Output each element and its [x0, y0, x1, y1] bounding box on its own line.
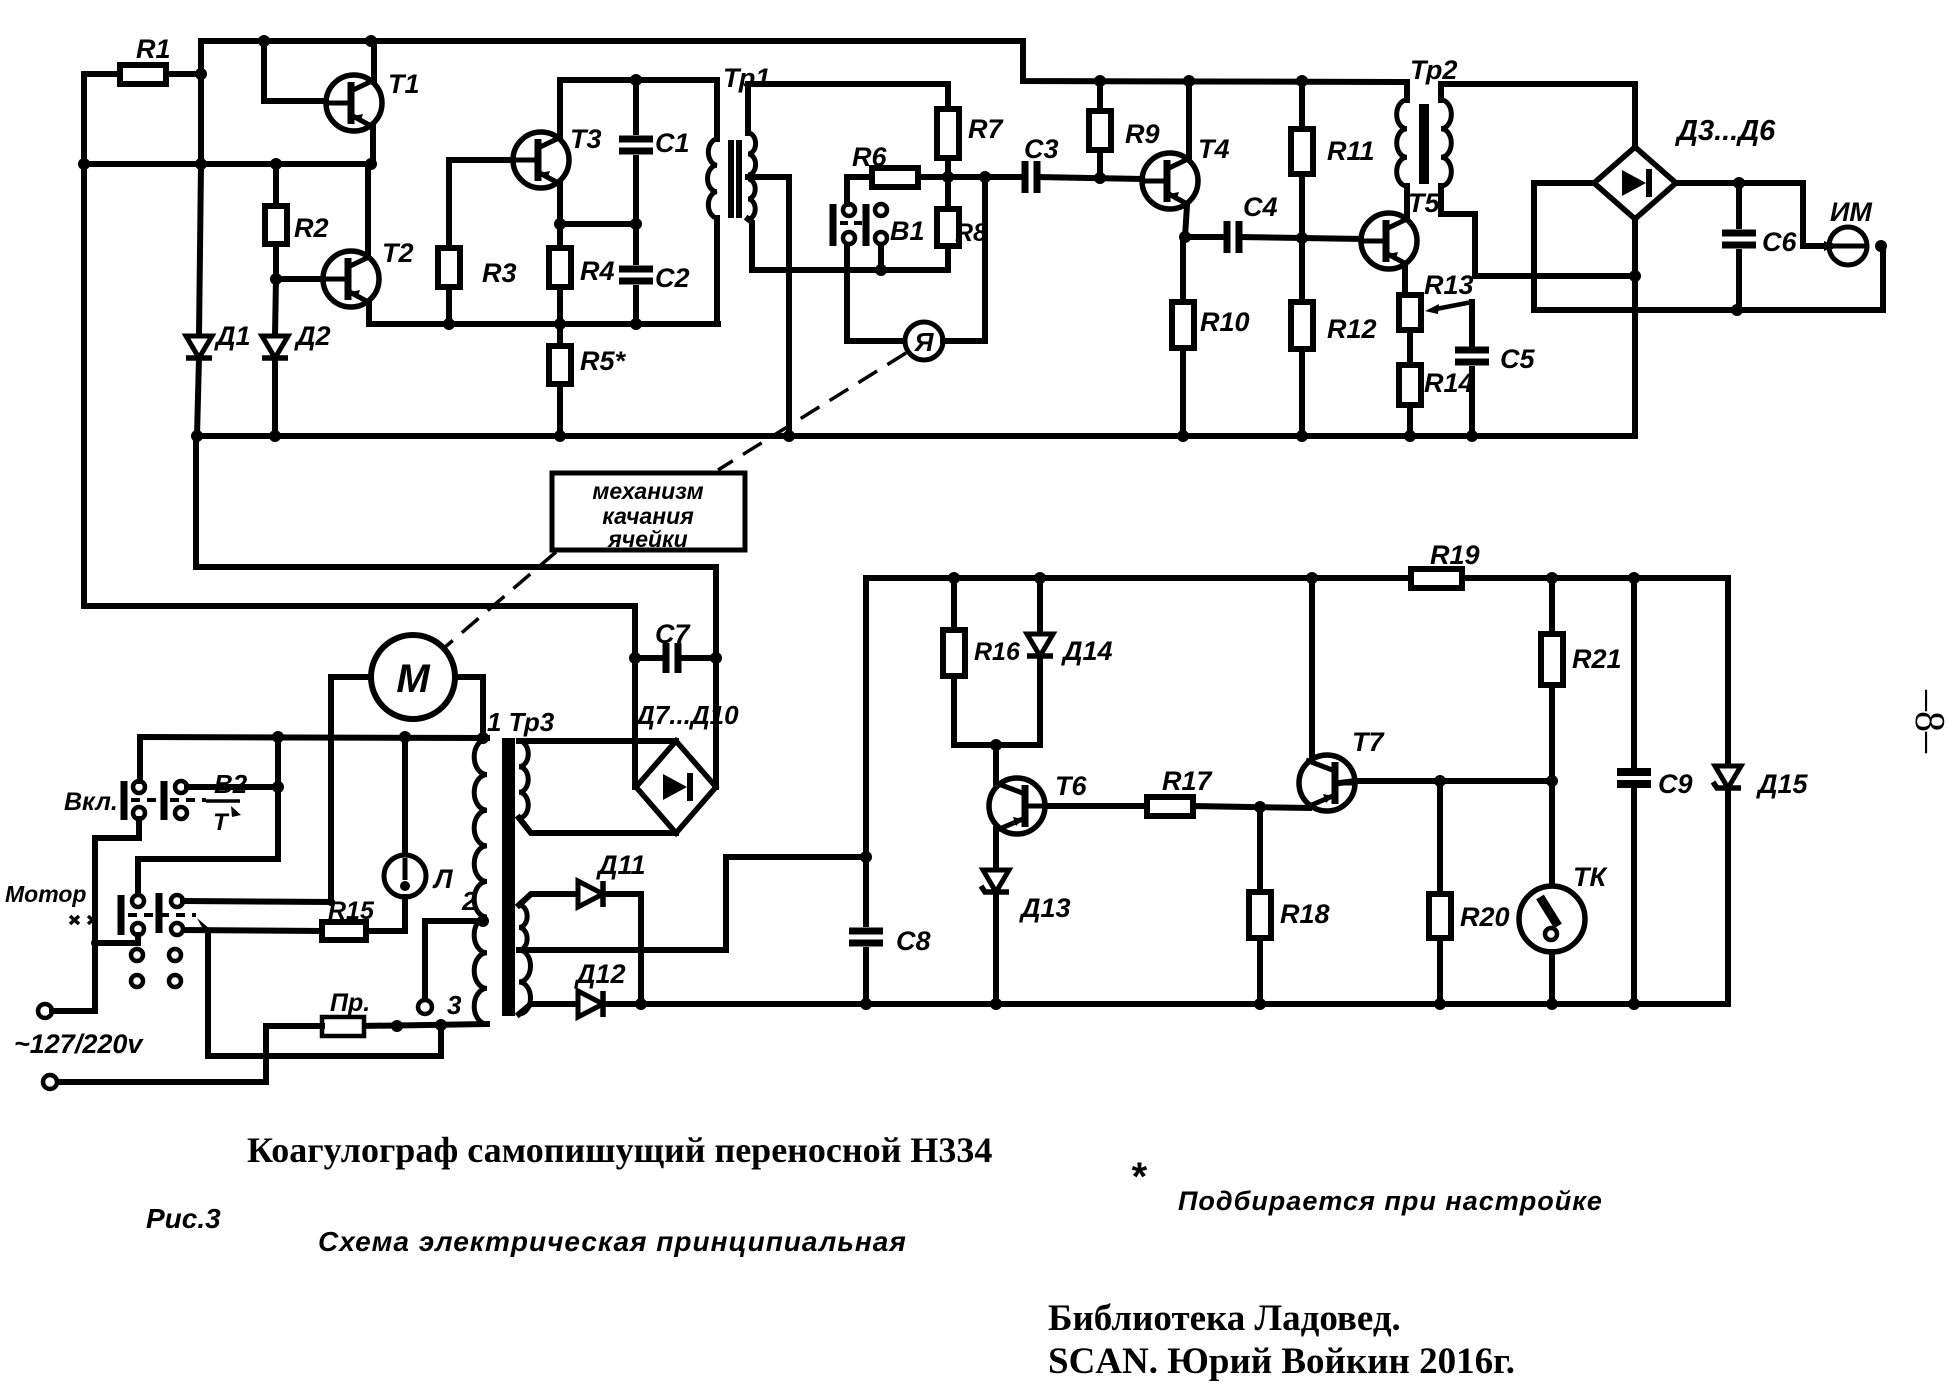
wire Tp2 right bottom lead — [1441, 186, 1635, 276]
transformer Tp2 right winding — [1441, 100, 1451, 186]
credit line 1 — [1048, 1298, 1401, 1339]
svg-text:1 Тр3: 1 Тр3 — [487, 707, 555, 737]
terminal mains input upper — [38, 1004, 52, 1018]
svg-text:Т6: Т6 — [1055, 771, 1087, 801]
wire R5 bottom — [557, 384, 563, 436]
node B2 right on vertical — [272, 781, 284, 793]
wire motor switch row1-right to motor — [183, 901, 331, 902]
svg-text:Д13: Д13 — [1019, 893, 1071, 923]
transformer Tp3 secondary winding III — [519, 950, 531, 1014]
svg-text:~127/220v: ~127/220v — [14, 1029, 144, 1059]
node R9 bottom — [1094, 172, 1106, 184]
svg-text:Т: Т — [213, 809, 230, 836]
label 2 — [461, 886, 477, 916]
svg-text:Вкл.: Вкл. — [64, 788, 118, 816]
transformer Tp1 secondary winding lower — [748, 179, 755, 219]
label ТК — [1573, 862, 1608, 892]
label Д3...Д6 — [1674, 115, 1776, 147]
resistor R8 — [937, 209, 959, 246]
diode Д14 — [1027, 634, 1053, 656]
resistor R19 — [1411, 569, 1462, 588]
wire R4 bottom to R5 — [557, 287, 563, 346]
node Д14 top rail — [1034, 572, 1046, 584]
label C1 — [655, 128, 690, 158]
wire T6 emitter lead — [993, 829, 999, 870]
svg-text:Тр2: Тр2 — [1410, 55, 1457, 85]
bridge rectifier Д7...Д10 — [636, 741, 716, 833]
svg-text:С7: С7 — [655, 619, 691, 649]
node T4 emitter / R10 / C4 — [1179, 231, 1191, 243]
label T6 — [1055, 771, 1087, 801]
node tap2 on primary — [477, 915, 489, 927]
bridge rectifier Д3...Д6 — [1594, 147, 1676, 219]
wire lower-left drop from bus — [196, 436, 716, 787]
switch Мотор — [121, 893, 196, 987]
wire R20 top — [1437, 781, 1443, 894]
label R20 — [1460, 902, 1510, 932]
wire left column x=201 — [198, 41, 204, 164]
wire T4 emitter — [1185, 205, 1187, 237]
label R11 — [1327, 136, 1375, 166]
wire Д15 bottom — [1725, 788, 1731, 1004]
resistor R17 — [1147, 797, 1193, 816]
wire meter loop right side — [943, 177, 985, 341]
node lamp column on motor bus — [399, 731, 411, 743]
label R17 — [1162, 766, 1214, 796]
wire input branch to motor switch row2 — [95, 940, 136, 946]
label 1 Тр3 — [487, 707, 555, 737]
capacitor C7 — [666, 643, 678, 673]
wire Tp3 tap3 row — [362, 1024, 487, 1026]
label ИМ — [1830, 197, 1872, 227]
wire T3 emitter — [557, 184, 563, 224]
wire Tp1 secondary mid tap — [748, 177, 789, 436]
wire Д14 bottom — [996, 656, 1040, 745]
wire Tp3 tap2 — [425, 921, 485, 1000]
wire R1 to vertical — [166, 71, 201, 77]
wire C1 top lead — [633, 80, 639, 132]
wire T6 base to R17 — [1046, 803, 1147, 809]
footnote asterisk — [1130, 1155, 1148, 1199]
wire left tall vertical — [81, 74, 87, 606]
node R16 top rail — [948, 572, 960, 584]
wire R8 bottom lead — [945, 246, 951, 270]
label C6 — [1762, 227, 1797, 257]
svg-text:2: 2 — [461, 886, 477, 916]
svg-text:Рис.3: Рис.3 — [146, 1203, 221, 1234]
resistor R14 — [1399, 365, 1421, 405]
wire R16 top — [951, 578, 957, 630]
node C7 left — [629, 652, 641, 664]
caption schema line — [318, 1226, 907, 1257]
wire lamp top lead — [402, 737, 408, 856]
title text — [247, 1130, 992, 1170]
label Д12 — [574, 959, 626, 989]
transformer Tp3 primary winding — [474, 739, 487, 1024]
wire bridge right vertex to C6/IM — [1676, 183, 1830, 246]
wire D1 column upper — [199, 164, 201, 336]
wire C6 bottom lead — [1736, 252, 1742, 310]
node R2 top on bus — [270, 158, 282, 170]
node T1 emitter / T2 collector — [365, 158, 377, 170]
node C2 bottom on osc bus — [630, 318, 642, 330]
wire top rail right part — [1443, 84, 1635, 147]
svg-text:С2: С2 — [655, 263, 690, 293]
wire B2/motor-switch vertical — [138, 737, 278, 895]
resistor R4 — [549, 248, 571, 287]
resistor R12 — [1291, 302, 1313, 349]
terminal mains input lower — [43, 1075, 57, 1089]
resistor R5* — [549, 346, 571, 384]
wire T2 emitter — [369, 303, 718, 324]
transformer Tp1 primary winding — [708, 139, 717, 218]
wire T3 base / R3 top — [449, 160, 513, 248]
svg-text:С6: С6 — [1762, 227, 1797, 257]
node motor right / Tp3 pin1 — [477, 732, 489, 744]
wire B1 lower-right to tap wire — [878, 245, 884, 270]
svg-text:Т3: Т3 — [570, 124, 602, 154]
node Ya loop top — [979, 171, 991, 183]
node T1 collector on top rail — [365, 35, 377, 47]
svg-text:R1: R1 — [136, 34, 171, 64]
label T7 — [1352, 727, 1385, 757]
resistor R11 — [1291, 129, 1313, 174]
label T4 — [1198, 134, 1230, 164]
wire bottom rail — [603, 1001, 1728, 1007]
svg-text:Д3...Д6: Д3...Д6 — [1674, 115, 1776, 147]
switch В2 — [124, 781, 206, 820]
wire motor right lead — [455, 677, 483, 738]
label 3 — [447, 990, 462, 1020]
transformer Tp3 secondary winding I — [519, 741, 528, 818]
wire R3 bottom — [446, 287, 452, 324]
wire Tp3 center tap — [519, 857, 866, 950]
wire R13 wiper to C5 — [1469, 302, 1475, 344]
node Tp1 tap vertical on lower bus — [783, 430, 795, 442]
label R1 — [136, 34, 171, 64]
wire R11 top — [1299, 81, 1305, 129]
svg-text:С4: С4 — [1243, 192, 1278, 222]
transistor T1 — [326, 75, 382, 131]
wire C8 column upper — [863, 578, 869, 924]
wire D2 to lower bus — [272, 358, 278, 436]
capacitor C2 — [619, 269, 653, 281]
label R6 — [852, 142, 887, 172]
svg-text:ТК: ТК — [1573, 862, 1608, 892]
wire R12 bottom — [1299, 349, 1305, 436]
svg-text:С3: С3 — [1024, 134, 1059, 164]
wire R7 bottom — [945, 158, 951, 177]
node T3 emitter / R4 top — [554, 218, 566, 230]
svg-text:механизм: механизм — [592, 478, 703, 504]
wire Tp2 right top lead — [1438, 84, 1444, 100]
wire R21 bottom — [1549, 685, 1555, 781]
node R9 top rail — [1094, 75, 1106, 87]
svg-text:Д1: Д1 — [214, 321, 251, 351]
wire C9 top — [1631, 578, 1637, 765]
wire R20 bottom — [1437, 938, 1443, 1004]
node T4 collector rail — [1183, 75, 1195, 87]
transformer Tp3 core — [502, 738, 515, 1016]
svg-text:R15: R15 — [328, 897, 375, 925]
label C7 — [655, 619, 691, 649]
node C1 top — [630, 74, 642, 86]
svg-text:Т4: Т4 — [1198, 134, 1230, 164]
node IM right corner — [1875, 240, 1887, 252]
transformer Tp2 core — [1419, 104, 1429, 184]
svg-text:Пр.: Пр. — [330, 989, 370, 1017]
label Д1 — [214, 321, 251, 351]
node Д13 bottom rail — [990, 998, 1002, 1010]
node R1 right — [195, 68, 207, 80]
wire upper input to B2 — [52, 838, 136, 1011]
wire T3 collector — [557, 80, 563, 137]
node selector contact a — [435, 1019, 447, 1031]
capacitor C4 — [1227, 221, 1239, 253]
wire R8 top lead — [945, 177, 951, 209]
wire R6 row — [847, 174, 872, 180]
svg-text:R16: R16 — [974, 638, 1021, 666]
label C4 — [1243, 192, 1278, 222]
wire Tp1 secondary top lead — [748, 84, 948, 133]
svg-text:Л: Л — [432, 864, 454, 894]
label T3 — [570, 124, 602, 154]
capacitor C8 — [849, 931, 883, 943]
label Д15 — [1756, 769, 1809, 799]
node D2 on lower bus — [269, 430, 281, 442]
resistor R3 — [438, 248, 460, 287]
wire T6 collector lead — [993, 745, 999, 783]
wire Д15 top — [1725, 578, 1731, 766]
svg-text:Т5: Т5 — [1408, 188, 1440, 218]
svg-text:R19: R19 — [1430, 540, 1480, 570]
wire C3 to T4 base — [1038, 177, 1142, 179]
wire motor switch row2-left to input — [135, 935, 141, 943]
label T5 — [1408, 188, 1440, 218]
svg-text:Т7: Т7 — [1352, 727, 1385, 757]
svg-text:Д11: Д11 — [596, 850, 646, 880]
wire bridge bottom vertex to lower bus — [1632, 219, 1638, 436]
wire R2 bottom / T2 base — [276, 244, 323, 279]
wire D1 to lower bus — [197, 358, 199, 436]
wire T4 collector — [1186, 81, 1192, 158]
svg-text:R6: R6 — [852, 142, 887, 172]
resistor R16 — [943, 630, 965, 676]
node R5 bottom on lower bus — [554, 430, 566, 442]
svg-text:Я: Я — [914, 327, 935, 357]
label R14 — [1424, 368, 1474, 398]
mechanism box — [552, 473, 745, 552]
transistor T6 — [989, 778, 1045, 834]
label C5 — [1500, 344, 1535, 374]
node T7 collector rail — [1306, 572, 1318, 584]
label T2 — [382, 238, 414, 268]
wire B2 top-left to motor bus — [137, 737, 143, 781]
wire D2 column upper — [275, 279, 276, 336]
wire Д13 bottom — [993, 892, 999, 1004]
wire R9 top — [1097, 81, 1103, 111]
node TK bottom rail — [1546, 998, 1558, 1010]
svg-text:ячейки: ячейки — [606, 526, 688, 552]
wire R6 right to C3 — [918, 174, 1024, 180]
wire Tp3 sec1 top to bridge top vertex — [519, 738, 676, 744]
svg-text:С5: С5 — [1500, 344, 1535, 374]
label В1 — [890, 216, 925, 246]
diode Д2 — [262, 336, 288, 358]
wire R4 top — [557, 224, 563, 248]
svg-text:R11: R11 — [1327, 136, 1375, 166]
node B2 column on motor bus — [272, 731, 284, 743]
resistor R10 — [1172, 302, 1194, 348]
transistor T5 — [1361, 213, 1417, 269]
node B1 lower-right on tap wire — [875, 264, 887, 276]
wire Tp1 primary top lead — [714, 80, 720, 139]
svg-text:R18: R18 — [1280, 899, 1330, 929]
node R11 top rail — [1296, 75, 1308, 87]
label R7 — [968, 114, 1004, 144]
svg-text:3: 3 — [447, 990, 462, 1020]
svg-text:R7: R7 — [968, 114, 1004, 144]
label C9 — [1658, 769, 1693, 799]
node C9 bottom rail — [1628, 998, 1640, 1010]
wire fuse left to lower input — [57, 1026, 322, 1082]
svg-text:R14: R14 — [1424, 368, 1474, 398]
dashed link box to motor — [444, 552, 556, 648]
wire motor bus — [140, 737, 487, 738]
label ~127/220v — [14, 1029, 144, 1059]
label Пр. — [330, 989, 370, 1017]
transformer Tp1 secondary winding upper — [748, 133, 756, 175]
resistor R2 — [265, 206, 287, 244]
footnote text — [1178, 1186, 1603, 1216]
wire T2 collector — [365, 164, 371, 256]
resistor R15 — [322, 922, 366, 940]
svg-text:R12: R12 — [1327, 314, 1377, 344]
svg-text:Д12: Д12 — [574, 959, 626, 989]
resistor R21 — [1541, 634, 1563, 685]
svg-text:Коагулограф самопишущий перено: Коагулограф самопишущий переносной Н334 — [247, 1130, 992, 1170]
svg-text:R20: R20 — [1460, 902, 1510, 932]
wire T5 emitter — [1402, 265, 1408, 295]
svg-text:В1: В1 — [890, 216, 925, 246]
wire T1 collector — [371, 41, 377, 80]
resistor R6 — [872, 168, 918, 187]
label C3 — [1024, 134, 1059, 164]
wire C1-C2 link — [633, 158, 639, 262]
node Д11 output on rail — [635, 998, 647, 1010]
svg-text:Д7...Д10: Д7...Д10 — [634, 700, 739, 730]
selector link arrow — [197, 918, 211, 933]
caption Рис.3 — [146, 1203, 221, 1234]
label R15 — [328, 897, 375, 925]
wire TK top — [1549, 781, 1555, 886]
label Тр1 — [723, 63, 770, 93]
label Л — [432, 864, 454, 894]
resistor R7 — [937, 109, 959, 158]
wire bus T1/T2 left — [84, 161, 371, 167]
wire Tp1 primary bottom lead — [714, 218, 720, 324]
svg-text:Д15: Д15 — [1756, 769, 1809, 799]
label R9 — [1125, 119, 1160, 149]
node C7 right — [710, 652, 722, 664]
svg-text:R9: R9 — [1125, 119, 1160, 149]
wire R17 to T7 emitter — [1193, 806, 1309, 808]
terminal tap2 selector — [418, 1000, 432, 1014]
svg-text:Д2: Д2 — [294, 321, 331, 351]
credit line 2 — [1048, 1341, 1515, 1382]
wire R10 top — [1180, 237, 1186, 302]
svg-text:С1: С1 — [655, 128, 690, 158]
node R3 bottom on osc bus — [443, 318, 455, 330]
node D1 on lower bus — [191, 430, 203, 442]
node motor lead on switch wire — [327, 898, 335, 906]
transistor T2 — [323, 251, 379, 307]
label R16 — [974, 638, 1021, 666]
node R11/R12 on base wire — [1296, 232, 1308, 244]
capacitor C3 — [1025, 161, 1037, 193]
wire T7 collector lead — [1309, 578, 1315, 760]
svg-text:М: М — [396, 657, 431, 701]
label T1 — [388, 69, 420, 99]
transistor T7 — [1299, 755, 1355, 811]
label R19 — [1430, 540, 1480, 570]
label R10 — [1200, 307, 1250, 337]
wire T7 base lead — [1340, 781, 1552, 783]
node R10 bottom on lower bus — [1177, 430, 1189, 442]
wire B2 top-right jog to motor switch — [187, 784, 278, 790]
node selector contact b — [391, 1020, 403, 1032]
label Д7...Д10 — [634, 700, 739, 730]
capacitor C9 — [1617, 772, 1651, 784]
node T6 collector — [990, 739, 1002, 751]
wire Tp2 left top lead — [1404, 82, 1410, 100]
wire C2 bottom — [633, 288, 639, 324]
svg-text:Т2: Т2 — [382, 238, 414, 268]
wire Д11 output — [603, 894, 641, 1004]
wire B2 bottom-left to input line — [136, 819, 142, 838]
label R4 — [580, 256, 615, 286]
wire R21 top — [1549, 578, 1555, 634]
label C2 — [655, 263, 690, 293]
diode Д13 — [981, 870, 1009, 892]
node top rail / T1 base branch — [258, 35, 270, 47]
diode Д1 — [186, 336, 212, 358]
wire motor left lead — [331, 677, 371, 902]
wire Д14 top — [1037, 578, 1043, 634]
wire R12 top — [1299, 238, 1305, 302]
wire top-left jog from R1 column — [201, 38, 264, 44]
svg-text:R10: R10 — [1200, 307, 1250, 337]
diode Д15 — [1713, 766, 1741, 788]
wire T5 collector — [1404, 186, 1410, 218]
svg-text:С8: С8 — [896, 926, 931, 956]
label R13 — [1424, 270, 1474, 300]
svg-text:SCAN. Юрий Войкин 2016г.: SCAN. Юрий Войкин 2016г. — [1048, 1341, 1515, 1382]
svg-text:Библиотека Ладовед.: Библиотека Ладовед. — [1048, 1298, 1401, 1339]
node R14 bottom on lower bus — [1404, 430, 1416, 442]
transformer Tp3 secondary winding II — [519, 905, 527, 950]
thermal contact ТК — [1519, 886, 1585, 952]
node input branch — [91, 939, 99, 947]
node C1/C2 mid — [630, 218, 642, 230]
node R6 crossing R7/R8 — [942, 171, 954, 183]
wire T4 emitter to C4 — [1185, 234, 1224, 240]
wire R1 left feed — [84, 71, 120, 77]
wire R16 bottom — [954, 676, 996, 745]
wire R7 top lead — [945, 84, 951, 109]
wire R9 bottom — [1097, 150, 1103, 178]
wire lower top rail right — [1462, 575, 1728, 581]
